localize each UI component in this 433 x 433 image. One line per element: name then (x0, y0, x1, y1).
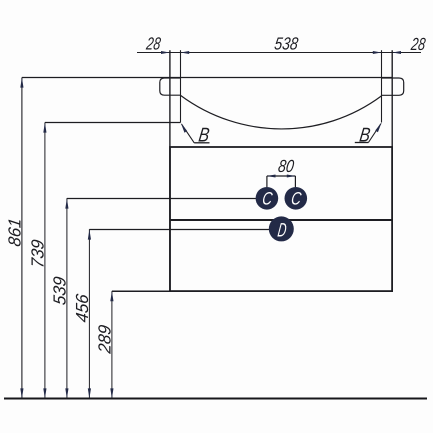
80 left arrow (267, 175, 276, 178)
handle circle C (right) (285, 187, 308, 210)
dimension line 456 (88, 229, 90, 398)
basin bowl curve (181, 96, 382, 129)
arrow tip at right post inner line pointing right (373, 51, 382, 54)
label B (left) underline (194, 142, 209, 144)
svg-text:538: 538 (273, 33, 299, 53)
leader line from 456 dimension to handle D (89, 229, 270, 231)
cabinet bottom extension line to 289 dimension (112, 290, 170, 292)
floor line (4, 398, 427, 400)
top dimension line (28 / 538 / 28) (137, 52, 421, 54)
svg-text:456: 456 (72, 293, 92, 324)
arrow tip at left sink edge pointing right (161, 51, 170, 54)
label 28 (right) (409, 34, 427, 54)
left mounting post outer line / cabinet left edge (169, 50, 171, 291)
svg-text:80: 80 (277, 156, 296, 176)
left sink rim tab (rounded) (160, 78, 181, 95)
drawer divider line (170, 219, 392, 221)
handle circle C (left) (256, 187, 279, 210)
svg-text:289: 289 (94, 323, 114, 355)
label 861 (4, 217, 24, 248)
80 dimension line between handles (267, 175, 296, 177)
label 539 (49, 275, 69, 306)
label B (right) underline (355, 142, 369, 144)
arrow tip at right sink edge pointing left (392, 51, 401, 54)
label 538 (273, 33, 299, 53)
dimension line 289 (111, 291, 113, 398)
handle circle D (269, 216, 294, 241)
right mounting post inner line (381, 50, 383, 122)
svg-text:539: 539 (49, 275, 69, 306)
label B (left) leader with arrowhead (182, 124, 195, 143)
leader line from 539 dimension to handle C (67, 198, 258, 200)
svg-text:739: 739 (27, 238, 47, 269)
label 80 (277, 156, 296, 176)
svg-text:28: 28 (409, 34, 427, 54)
svg-text:28: 28 (144, 33, 162, 53)
sink top edge line (22, 77, 392, 79)
svg-text:861: 861 (4, 217, 24, 248)
label B (left) (197, 125, 211, 147)
extension line under sink rim (739 level) (45, 122, 181, 124)
label 289 (94, 323, 114, 355)
80 dimension left tick down to handle (266, 176, 268, 187)
dimension line 539 (66, 198, 68, 398)
right mounting post outer line / cabinet right edge (391, 50, 393, 291)
label B (right) leader with arrowhead (368, 124, 381, 143)
dimension line 739 (44, 123, 46, 399)
label 28 (left) (144, 33, 162, 53)
cabinet body outline (170, 147, 392, 291)
label 739 (27, 238, 47, 269)
label B (right) (358, 124, 372, 146)
left mounting post inner line (180, 50, 182, 122)
dimension line 861 (21, 78, 23, 399)
80 dimension right tick down to handle (294, 176, 296, 187)
arrow tip at left post inner line pointing left (181, 51, 190, 54)
right sink rim tab (rounded) (382, 78, 404, 95)
label 456 (72, 293, 92, 324)
80 right arrow (287, 175, 296, 178)
